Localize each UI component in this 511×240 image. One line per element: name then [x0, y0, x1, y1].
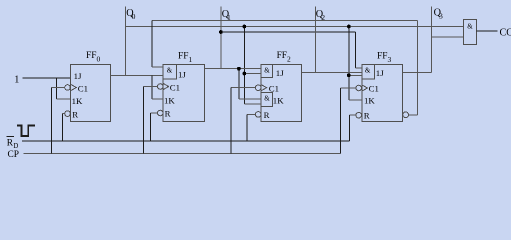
wire Q3 riser [430, 7, 432, 73]
svg-text:R: R [264, 110, 270, 120]
svg-text:1K: 1K [364, 95, 375, 105]
junction dot Q1-riser/bus [219, 30, 223, 34]
wire Q0 riser [125, 7, 127, 76]
wire FF2 C1 drop [230, 88, 232, 154]
wire 1-to-FF0-1K [56, 98, 70, 100]
pin R of FF2 (bubble) [255, 112, 261, 118]
wire FF3-Q out [402, 71, 431, 73]
AND block of FF3 J input [362, 65, 375, 79]
svg-text:C1: C1 [78, 83, 88, 93]
wire into FF1 1K [152, 98, 163, 100]
wire Q1 drop to FF3 J-AND [354, 32, 356, 68]
svg-text:&: & [264, 95, 270, 103]
wire Q1 into FF3 J-AND [355, 67, 362, 69]
svg-text:C1: C1 [170, 82, 180, 92]
svg-text:CP: CP [8, 150, 19, 160]
wire FF0 R stub [62, 113, 64, 115]
svg-text:1J: 1J [376, 68, 384, 78]
wire Q3 to carry gate lower input [431, 36, 463, 38]
wire CP rail [24, 153, 341, 155]
svg-text:1K: 1K [273, 95, 284, 105]
wire Q0 into FF3 J-AND [349, 74, 362, 76]
svg-text:1J: 1J [74, 71, 82, 81]
svg-text:&: & [467, 23, 473, 31]
wire Q1 riser [220, 7, 222, 69]
wire Qbar3 into FF1 J-AND [152, 66, 163, 68]
junction dot Q0/FF3 J-AND branch [347, 73, 351, 77]
wire Q1 into FF2 K-AND [239, 98, 261, 100]
AND block of FF2 J input [261, 65, 273, 78]
svg-text:CO: CO [500, 27, 511, 38]
svg-text:&: & [167, 67, 173, 75]
reset pulse waveform icon [17, 125, 35, 136]
wire Q1 bus [221, 31, 355, 33]
wire FF3 R stub [349, 114, 356, 116]
svg-text:R: R [165, 109, 171, 119]
svg-text:R: R [364, 111, 370, 121]
wire FF1 R stub [150, 112, 157, 114]
wire Q0 into FF2 J-AND [244, 73, 261, 75]
AND block of FF1 J input [163, 65, 177, 80]
wire FF3 C1 stub [341, 87, 356, 89]
node RD reset input label with overbar [7, 136, 14, 138]
wire Q0 bus to carry gate [126, 26, 464, 28]
pin C1 of FF1 (bubble and edge triangle) [157, 84, 163, 90]
flip-flop FF0 [71, 65, 111, 122]
wire Qbar3 riser [417, 21, 419, 115]
wire 1-to-FF0-1J [23, 77, 71, 79]
wire Q0 drop to FF3 [348, 27, 350, 101]
junction dot Q0/FF2 J-AND branch [242, 72, 246, 76]
wire FF3 C1 drop [340, 88, 342, 154]
wire FF1 C1 stub [144, 86, 158, 88]
wire FF2-Q to FF3 J-AND middle input [301, 71, 361, 73]
svg-text:1K: 1K [72, 96, 83, 106]
wire FF2 R stub [247, 113, 255, 115]
wire FF0 R drop [61, 114, 63, 142]
wire Q0 into FF3 1K [349, 99, 362, 101]
pin C1 of FF3 (bubble and edge triangle) [356, 85, 362, 91]
carry AND gate U1 [464, 20, 477, 45]
flip-flop FF3 [362, 65, 403, 122]
wire Q0 drop to FF2 [243, 27, 245, 104]
flip-flop FF1 [163, 65, 204, 122]
wire FF0 C1 stub [51, 87, 64, 89]
wire Q0 into FF2 K-AND [244, 103, 261, 105]
svg-text:D: D [13, 143, 18, 150]
svg-text:1: 1 [14, 74, 19, 85]
wire FF0-Q to FF1 J-AND lower input [111, 75, 163, 77]
wire Q0 branch down to FF1 1K [151, 76, 153, 100]
wire FF3-Qbar out [409, 114, 418, 116]
wire FF1-Q to FF2 J-AND upper input [204, 68, 261, 70]
svg-text:&: & [264, 67, 270, 75]
wire Q2 riser [314, 7, 316, 73]
AND block of FF2 K input [261, 92, 273, 106]
pin Qbar of FF3 (output bubble) [403, 112, 409, 118]
wire RD rail [22, 140, 349, 142]
svg-text:&: & [365, 67, 371, 75]
wire Qbar3 drop to FF1 J-AND [151, 21, 153, 67]
wire FF2 C1 stub [231, 87, 255, 89]
junction dot Q0-bus/FF3 drop [347, 25, 351, 29]
wire FF0 C1 drop [50, 88, 52, 154]
wire 1-branch-down [55, 78, 57, 99]
junction dot Q1/FF2 K branch [237, 67, 241, 71]
svg-text:C1: C1 [369, 84, 379, 94]
pin R of FF0 (bubble) [65, 111, 71, 117]
svg-text:3: 3 [439, 11, 443, 20]
flip-flop FF2 [261, 65, 301, 122]
wire Qbar3 bus to FF1 [152, 20, 418, 22]
svg-text:1K: 1K [164, 96, 175, 106]
pin R of FF1 (bubble) [157, 110, 163, 116]
wire FF1 C1 drop [143, 87, 145, 154]
svg-text:1J: 1J [276, 68, 284, 78]
junction dot Q0-bus/FF2 drop [242, 25, 246, 29]
wire CO output [477, 30, 498, 32]
wire FF3 R drop [348, 115, 350, 141]
svg-text:0: 0 [132, 12, 136, 21]
wire Q1 branch down to FF2 K-AND [238, 69, 240, 99]
wire FF2 R drop [246, 114, 248, 141]
pin C1 of FF0 (bubble and edge triangle) [65, 85, 71, 91]
svg-text:1J: 1J [178, 70, 186, 80]
wire FF1 R drop [149, 113, 151, 141]
pin R of FF3 (bubble) [356, 112, 362, 118]
svg-text:R: R [72, 110, 78, 120]
pin C1 of FF2 (bubble and edge triangle) [255, 85, 261, 91]
